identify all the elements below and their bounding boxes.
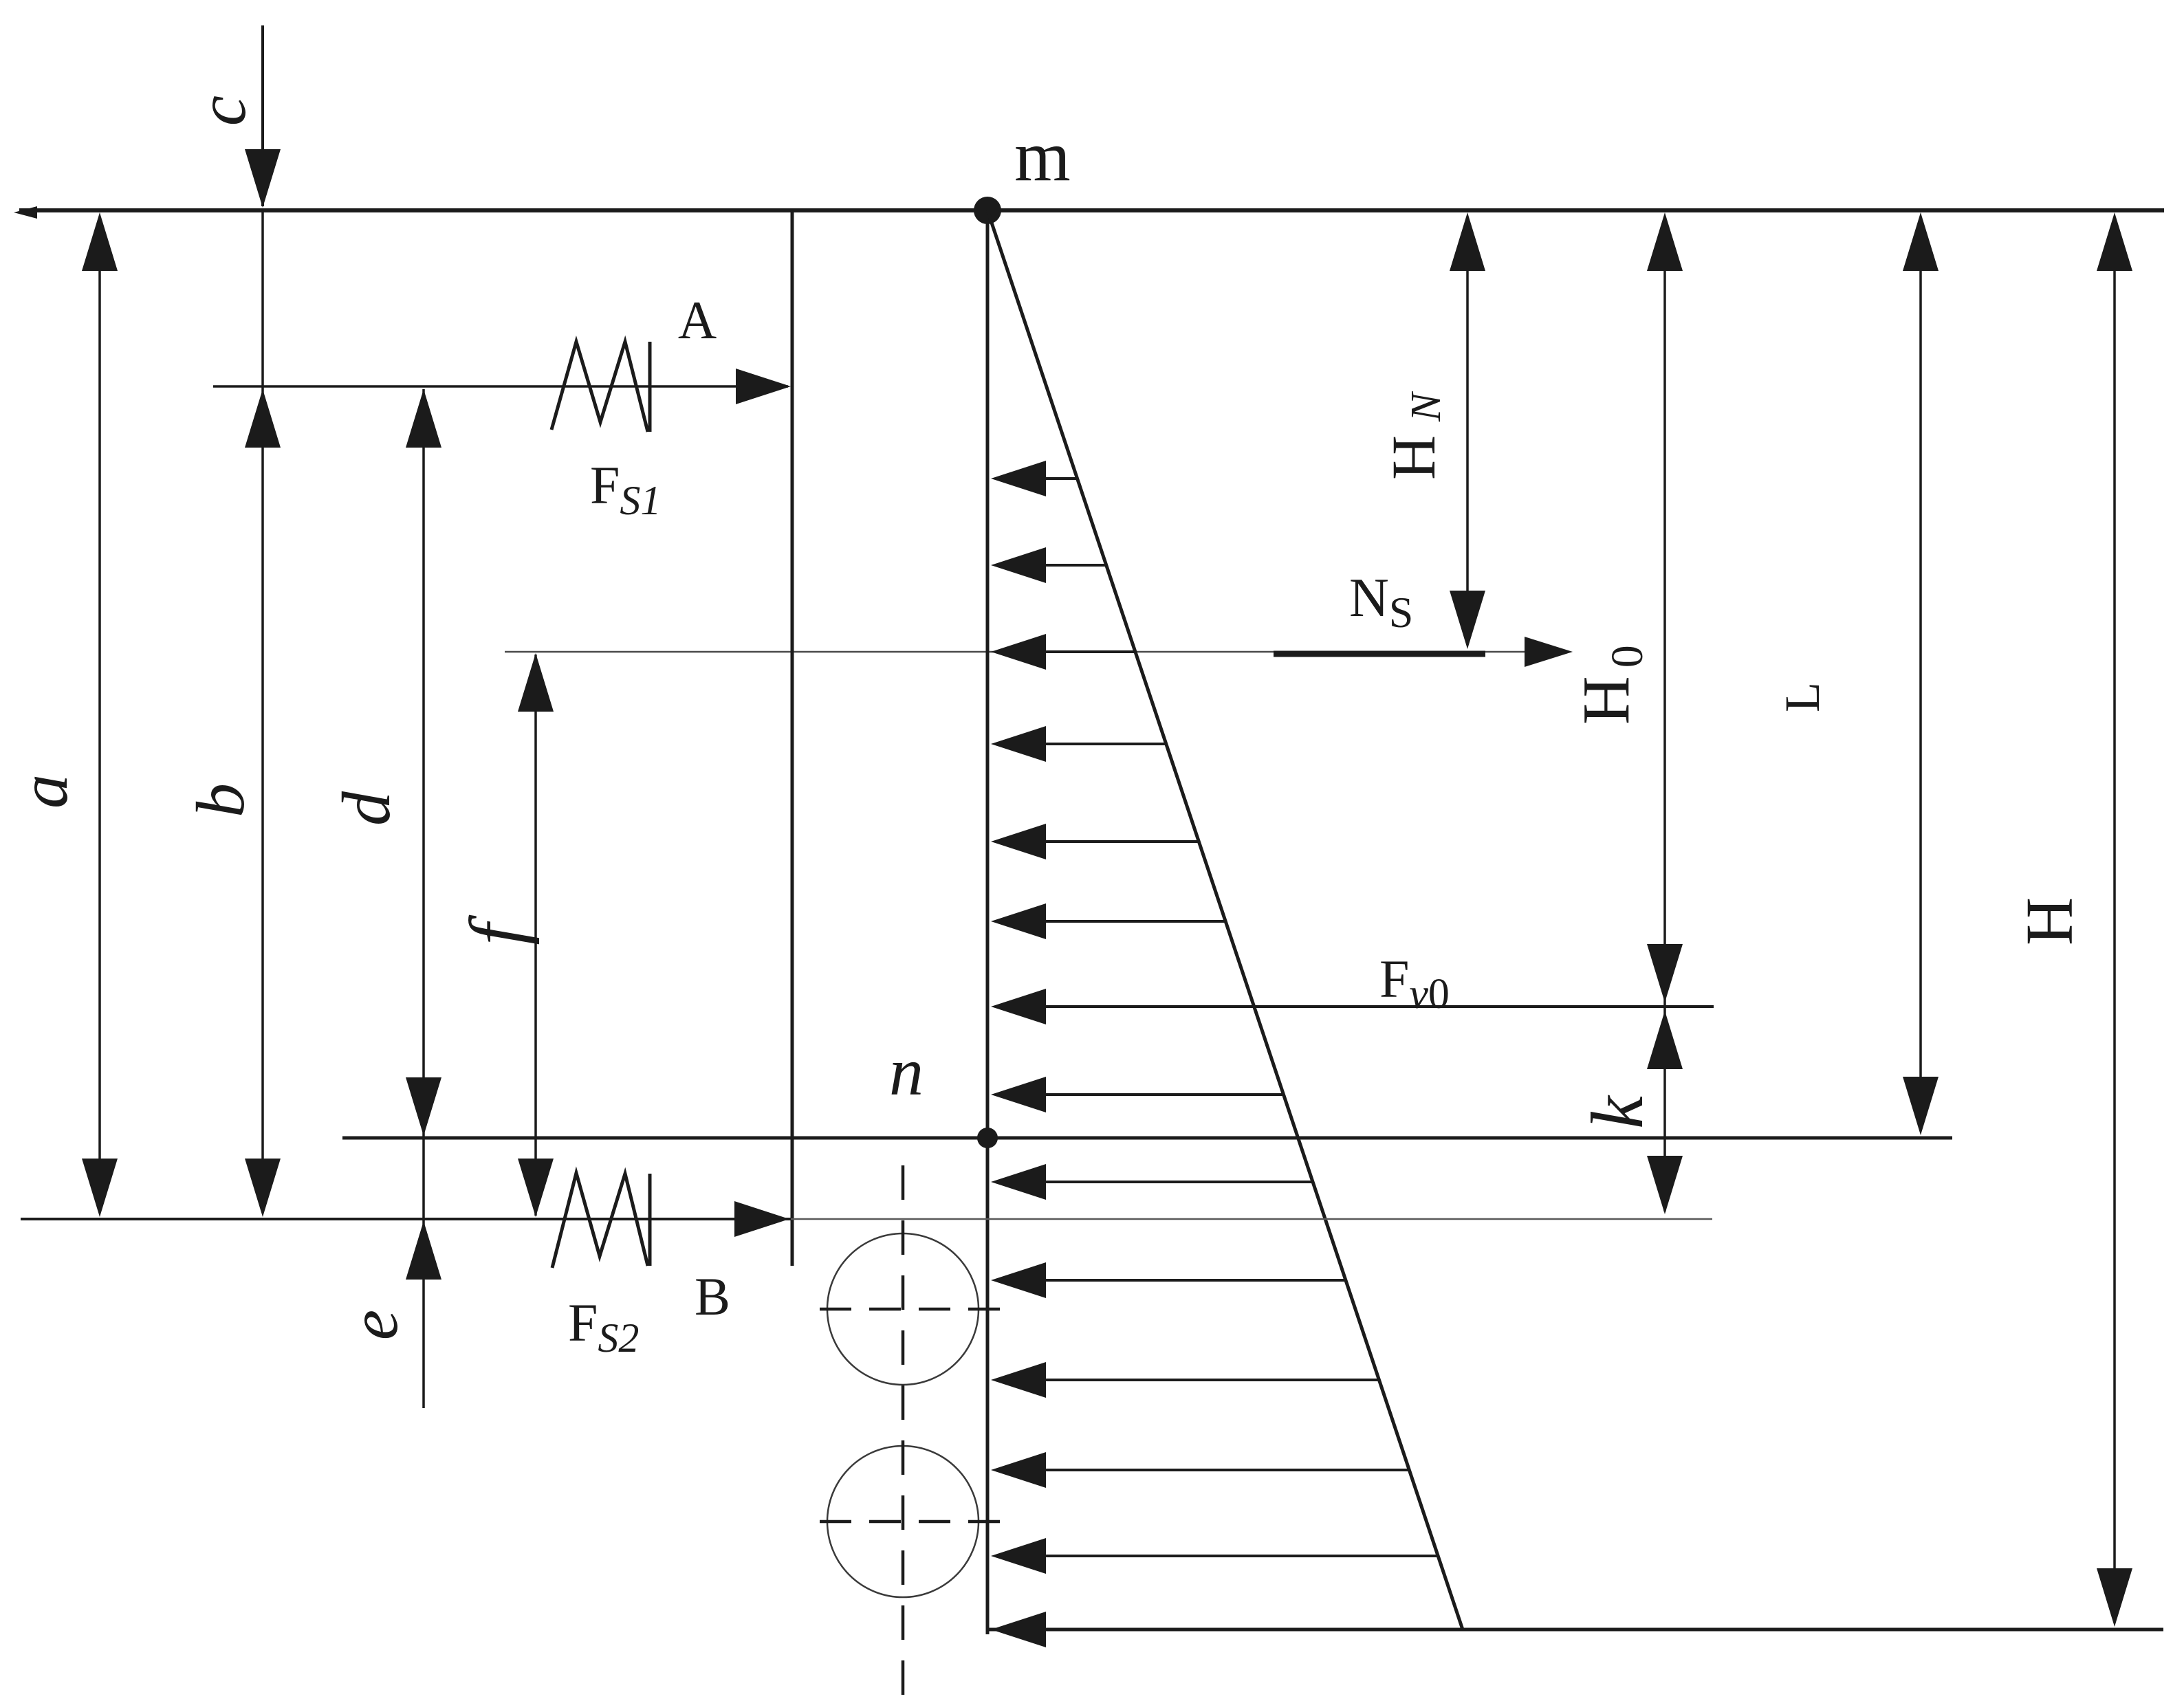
dimension c line (245, 25, 281, 208)
pressure arrow y2138 (991, 1452, 1409, 1488)
pile crosshair 2 (820, 1520, 1008, 1524)
svg-text:k: k (1577, 1095, 1659, 1129)
svg-text:HN: HN (1380, 391, 1450, 480)
svg-text:e: e (336, 1310, 412, 1340)
bottom pressure base line (987, 1628, 2163, 1632)
pressure arrow y1719 (991, 1164, 1313, 1200)
ground line (14, 206, 2164, 219)
dimension b (245, 210, 281, 1217)
pressure arrow y1224 (991, 824, 1199, 859)
svg-text:a: a (6, 774, 82, 809)
dimension H (2097, 212, 2132, 1627)
pressure arrow y2263 (991, 1538, 1438, 1574)
svg-text:c: c (184, 96, 260, 126)
svg-text:L: L (1775, 682, 1830, 712)
NS level line (505, 637, 1573, 667)
pressure arrow y696 (991, 461, 1078, 496)
svg-text:d: d (328, 791, 404, 826)
svg-text:NS: NS (1349, 568, 1413, 637)
dimension H0 and k line (1647, 212, 1683, 1214)
pressure arrow y1592 (991, 1077, 1284, 1112)
svg-text:A: A (678, 290, 717, 350)
anchor arrow B (734, 1201, 789, 1237)
svg-text:B: B (695, 1266, 730, 1326)
svg-text:f: f (455, 914, 540, 945)
B level line right (791, 1218, 1712, 1220)
pressure arrow y1082 (991, 726, 1166, 762)
svg-text:Fv0: Fv0 (1379, 949, 1450, 1018)
pressure arrow y948 (991, 634, 1135, 670)
svg-text:m: m (1014, 116, 1071, 196)
pressure arrow y1862 (991, 1262, 1346, 1298)
svg-text:H0: H0 (1569, 645, 1652, 725)
svg-text:n: n (889, 1033, 924, 1110)
spring FS1 (552, 342, 650, 432)
pile circle 2 (827, 1446, 979, 1597)
pressure arrow y2370 (991, 1612, 1463, 1647)
pile center dashed vertical (902, 1165, 905, 1696)
B level line left (21, 1218, 791, 1220)
svg-text:FS1: FS1 (590, 455, 661, 523)
pressure arrow y822 (991, 547, 1106, 583)
dimension L (1903, 212, 1939, 1135)
dimension d and e line (406, 389, 441, 1408)
pressure arrow y2007 (991, 1362, 1379, 1398)
Fv0 force arrow (991, 989, 1714, 1024)
pressure arrow y1340 (991, 903, 1225, 939)
pile circle 1 (827, 1233, 979, 1385)
pile axis line (986, 210, 990, 1634)
dimension a (82, 212, 118, 1217)
node n dot (977, 1128, 998, 1148)
dimension HN (1450, 212, 1485, 649)
svg-text:H: H (2013, 897, 2086, 945)
svg-text:FS2: FS2 (568, 1293, 639, 1361)
dimension f (518, 653, 554, 1217)
pile crosshair 1 (820, 1308, 1008, 1311)
NS bar (1274, 651, 1485, 657)
wall back line (791, 210, 794, 1266)
pressure envelope slant line (987, 210, 1463, 1629)
svg-text:b: b (182, 783, 259, 817)
n level line (342, 1137, 1952, 1140)
node m dot (974, 197, 1001, 224)
spring FS2 (552, 1173, 650, 1268)
anchor line A level (213, 369, 791, 404)
